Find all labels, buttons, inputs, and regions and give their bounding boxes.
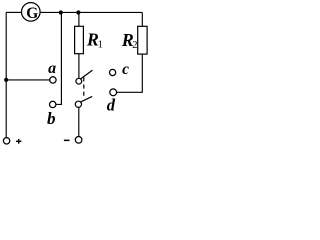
wire left rail xyxy=(5,12,7,137)
wire top corner to R2 xyxy=(141,12,143,26)
wire b branch vertical xyxy=(56,13,61,105)
svg-text:b: b xyxy=(47,109,56,128)
terminal d xyxy=(110,89,117,96)
node dot top wire b branch xyxy=(59,10,63,14)
svg-text:d: d xyxy=(107,96,116,115)
terminal a xyxy=(50,77,56,83)
terminal b xyxy=(50,101,56,107)
svg-text:c: c xyxy=(122,61,129,78)
switch S1 upper blade xyxy=(81,70,93,79)
wire top galvanometer to right corner xyxy=(41,11,143,13)
wire lower switch to minus terminal xyxy=(78,107,80,136)
label plus xyxy=(16,139,21,144)
galvanometer G1 xyxy=(22,3,41,23)
svg-text:1: 1 xyxy=(98,40,103,51)
wire R1 bottom to switch xyxy=(78,54,80,79)
label minus xyxy=(64,140,70,142)
terminal minus xyxy=(75,137,82,144)
wire node A to terminal a xyxy=(6,79,50,81)
switch S1 lower blade xyxy=(81,96,93,102)
svg-text:G: G xyxy=(26,5,38,22)
terminal plus xyxy=(3,138,9,144)
wire top dot to R1 xyxy=(78,13,80,27)
svg-text:a: a xyxy=(48,60,56,77)
switch S1 lower pivot xyxy=(75,101,81,107)
switch mechanical link (dashed) xyxy=(83,77,85,97)
resistor R2 xyxy=(121,26,147,54)
switch S1 upper pivot xyxy=(76,78,82,84)
terminal c xyxy=(110,69,116,75)
wire terminal d to R2 bottom xyxy=(117,54,143,92)
resistor R1 xyxy=(75,26,103,53)
node dot left rail xyxy=(4,78,8,82)
node dot top wire R1 branch xyxy=(76,10,80,14)
svg-text:2: 2 xyxy=(132,40,137,51)
wire top left to galvanometer xyxy=(6,11,21,13)
